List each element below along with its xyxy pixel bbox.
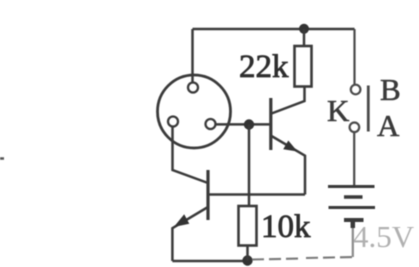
resistor R1 22k body (295, 46, 312, 87)
svg-text:B: B (380, 72, 401, 107)
transistor Q2 emitter (172, 207, 208, 261)
wire left drop to tube top pin (191, 29, 194, 83)
transistor Q1 base bar (269, 98, 272, 150)
svg-text:10k: 10k (261, 209, 311, 245)
wire Q1 emitter to Q2 base (208, 193, 305, 196)
switch K blade (367, 86, 370, 132)
battery bottom stub faint continuation (352, 228, 354, 257)
transistor Q2 collector (173, 127, 209, 184)
svg-text:4.5V: 4.5V (353, 219, 415, 254)
tube V1 envelope circle (158, 75, 231, 148)
node J3 junction dot at R2 bottom (242, 255, 252, 265)
wire bottom rail solid (172, 260, 249, 263)
edge mark left (0, 157, 4, 160)
battery plate 4 short (344, 218, 364, 222)
wire switch A to battery (353, 132, 355, 185)
switch K contact A (350, 123, 360, 133)
transistor Q1 emitter arrow (283, 141, 297, 152)
wire R1 bottom to Q1 collector (272, 87, 305, 114)
tube pin right (206, 119, 216, 129)
wire right drop from rail to switch (353, 29, 355, 85)
battery plate 3 long (329, 206, 376, 209)
tube pin left (168, 117, 178, 127)
switch K contact B (351, 85, 361, 95)
wire R1 top stub (303, 29, 306, 46)
svg-text:22k: 22k (239, 49, 289, 85)
wire node J1 down to R2 top (248, 125, 251, 207)
svg-text:A: A (377, 108, 400, 143)
battery bottom stub (351, 220, 356, 228)
node J2 junction dot at 22k top (299, 24, 309, 34)
node J1 junction dot (244, 119, 254, 129)
wire R2 bottom stub (246, 246, 249, 262)
wire tube right pin to node J1 and Q1 base (216, 123, 270, 126)
battery plate 2 short (344, 195, 363, 198)
transistor Q1 emitter (272, 136, 306, 195)
wire top rail (193, 28, 355, 31)
transistor Q2 emitter arrow (174, 214, 190, 227)
tube pin top (188, 83, 198, 93)
resistor R2 10k body (239, 206, 257, 246)
svg-text:K: K (327, 93, 350, 128)
transistor Q2 base bar (206, 170, 209, 220)
wire bottom rail faint right part (252, 257, 353, 260)
battery plate 1 long (328, 185, 375, 188)
